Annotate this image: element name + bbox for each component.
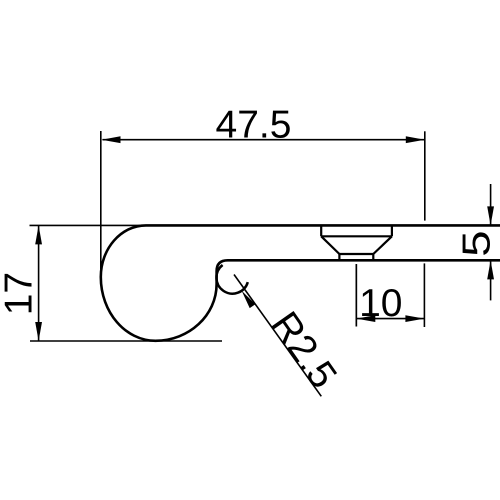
part outline: hook curl and flange bottom edge xyxy=(101,225,500,340)
countersunk hole: cylindrical bore xyxy=(339,254,373,260)
dim 10: left extension line (hole centre) xyxy=(355,264,357,326)
dim 17: top extension line xyxy=(30,224,147,226)
svg-text:47.5: 47.5 xyxy=(216,104,292,147)
countersunk hole: mouth rectangle xyxy=(321,225,392,236)
dim 17: dimension line xyxy=(38,225,40,341)
dim 10: dimension line xyxy=(356,318,424,320)
hole centerline below part xyxy=(355,264,357,326)
dim 47.5: left arrowhead xyxy=(102,136,121,143)
countersunk hole: cone flanks xyxy=(321,236,392,254)
dim 10: right arrowhead xyxy=(405,315,424,322)
dim 47.5: right arrowhead xyxy=(406,136,425,143)
dim 10: right extension line xyxy=(423,263,425,327)
dim 17: bottom extension line xyxy=(30,340,222,342)
svg-text:17: 17 xyxy=(0,272,41,315)
dim 10: left arrowhead xyxy=(356,315,375,322)
dim 17: bottom arrowhead xyxy=(35,322,42,341)
dim 47.5: right extension line xyxy=(424,131,426,220)
dim 5: lower dimension line segment xyxy=(490,260,492,300)
dim 47.5: dimension line xyxy=(103,139,425,141)
dim 17: top arrowhead xyxy=(35,225,42,244)
leader R2.5: leader line xyxy=(234,275,321,397)
leader R2.5: arrowhead on bead arc xyxy=(242,291,256,309)
part outline: top edge of profile xyxy=(146,224,500,227)
dim 5: upper arrowhead (points down) xyxy=(487,206,494,225)
bead R2.5 tip circle of hook xyxy=(216,265,247,294)
dim 47.5: left extension line xyxy=(100,131,102,269)
dim 5: upper dimension line segment xyxy=(490,184,492,225)
dim 5: lower arrowhead (points up) xyxy=(487,260,494,279)
svg-text:5: 5 xyxy=(455,230,498,256)
svg-text:10: 10 xyxy=(359,282,402,325)
